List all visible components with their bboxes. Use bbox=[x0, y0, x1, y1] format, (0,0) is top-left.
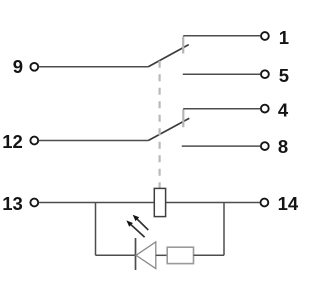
wire coil to 14 bbox=[166, 202, 260, 204]
wire 13 to coil bbox=[39, 202, 155, 204]
LED triangle bbox=[136, 242, 156, 269]
wire from terminal 9 to pivot bbox=[39, 66, 149, 68]
switch arm S1 (pole 9 to contact 1) bbox=[148, 45, 188, 67]
mechanical linkage dashed line bbox=[159, 61, 161, 188]
LED cathode bar bbox=[135, 238, 137, 270]
svg-text:5: 5 bbox=[279, 65, 289, 86]
switch arm S2 (pole 12 to contact 4) bbox=[148, 118, 189, 140]
wire from terminal 12 to pivot bbox=[39, 140, 149, 142]
terminal 1 bbox=[261, 32, 269, 40]
branch right vertical wire bbox=[223, 203, 225, 256]
contact stub NO1 bbox=[182, 36, 184, 53]
resistor R1 bbox=[167, 247, 193, 263]
wire to terminal 1 bbox=[183, 35, 260, 37]
wire to LED cathode bbox=[96, 254, 136, 256]
svg-text:14: 14 bbox=[278, 193, 299, 214]
wire LED to resistor bbox=[156, 254, 167, 256]
terminal 12 bbox=[30, 137, 38, 145]
LED emission arrow lower bbox=[126, 220, 144, 237]
wire to terminal 8 bbox=[182, 145, 260, 147]
wire to terminal 4 bbox=[183, 108, 260, 110]
terminal 5 bbox=[261, 70, 269, 78]
LED emission arrow upper bbox=[133, 215, 149, 230]
svg-text:1: 1 bbox=[279, 27, 289, 48]
terminal 8 bbox=[261, 142, 269, 150]
svg-text:13: 13 bbox=[2, 193, 23, 214]
terminal 14 bbox=[261, 199, 269, 207]
coil K1 bbox=[154, 188, 165, 216]
wire to terminal 5 bbox=[183, 73, 261, 75]
wire resistor to right vertical bbox=[194, 254, 225, 256]
terminal 9 bbox=[30, 63, 38, 71]
svg-text:4: 4 bbox=[278, 99, 289, 120]
terminal 13 bbox=[30, 199, 38, 207]
contact stub NO2 bbox=[182, 109, 184, 127]
svg-text:12: 12 bbox=[2, 131, 23, 152]
svg-text:8: 8 bbox=[278, 136, 288, 157]
svg-text:9: 9 bbox=[13, 56, 23, 77]
terminal 4 bbox=[261, 105, 269, 113]
branch left vertical wire bbox=[95, 203, 97, 256]
